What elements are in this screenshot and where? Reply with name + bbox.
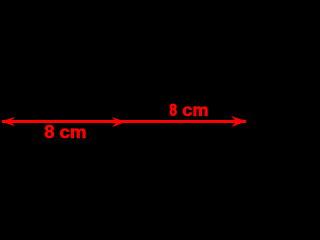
svg-text:8cm: 8cm bbox=[44, 122, 86, 142]
svg-text:8cm: 8cm bbox=[169, 100, 208, 120]
